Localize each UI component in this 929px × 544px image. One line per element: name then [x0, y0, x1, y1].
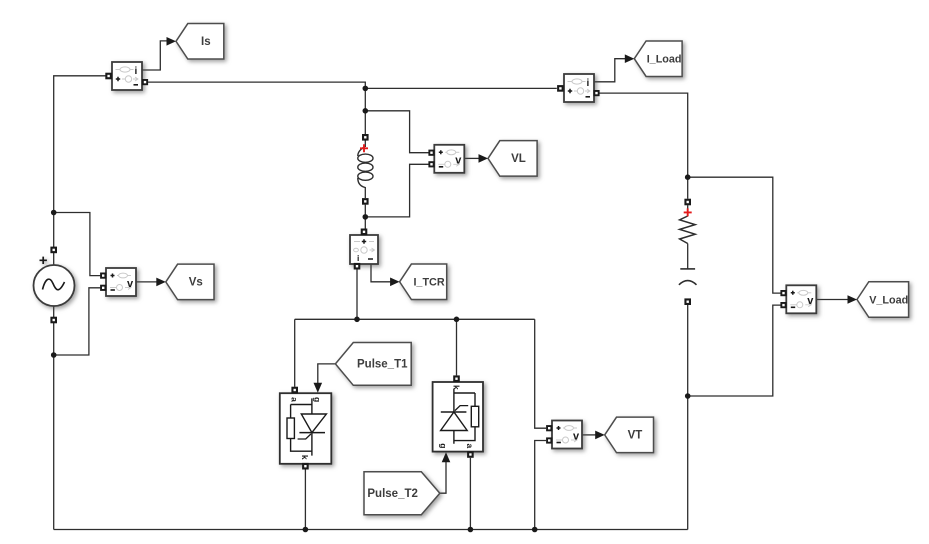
port T1 cathode terminal [302, 463, 309, 470]
svg-text:VT: VT [628, 430, 643, 442]
svg-text:a: a [465, 444, 475, 449]
wire bottom bus [54, 529, 688, 531]
arrowhead into VT tag [595, 431, 605, 440]
wire load top node to V_Load plus input [688, 177, 784, 293]
wire I_TCR meter minus output to thyristor bus [356, 269, 358, 319]
resistor R (load branch zigzag) [680, 216, 696, 244]
goto tag Vs [166, 264, 214, 300]
node junction bottom bus / T1 cathode [303, 527, 309, 533]
port Is meter minus output [142, 79, 148, 85]
svg-text:k: k [300, 455, 310, 460]
port T2 cathode terminal [453, 375, 460, 382]
port VT meter plus input [546, 425, 552, 431]
node junction inductor top / VL+ tap [363, 108, 369, 114]
wire thyristor top bus [295, 318, 535, 320]
wire Pulse_T2 tag to T2 gate [440, 461, 446, 493]
goto tag Is [176, 24, 224, 60]
label inductor polarity red plus [360, 144, 368, 152]
wire VL meter output to VL tag [465, 157, 480, 159]
wire ammeter1 minus-output top bus to inductor branch [148, 82, 365, 88]
port VL meter minus input [428, 161, 434, 167]
svg-text:I_TCR: I_TCR [413, 277, 444, 289]
wire node N1 to Vs plus input [54, 213, 101, 276]
port I_TCR meter minus output (bottom) [354, 263, 361, 270]
wire bottom bus to VT minus input [535, 441, 546, 530]
wire mid top bus junction to I_Load meter input [365, 87, 557, 89]
arrowhead into V_Load tag [848, 295, 858, 304]
wire node N2 to Vs minus input [54, 288, 101, 355]
svg-text:a: a [290, 397, 300, 402]
wire left rail source-top to port [53, 253, 55, 266]
svg-text:Is: Is [201, 36, 211, 48]
current measurement block Is meter [112, 62, 142, 90]
arrowhead into I_Load tag [625, 54, 635, 63]
wire inductor coil to bottom port [364, 187, 366, 198]
svg-text:Pulse_T2: Pulse_T2 [367, 488, 418, 500]
port I_TCR meter plus input (top) [361, 229, 368, 236]
port ac source minus terminal [50, 317, 57, 324]
wire Vs meter output to Vs tag [136, 281, 158, 283]
arrowhead into T1 gate port [314, 383, 323, 393]
port Is meter plus input [105, 73, 112, 80]
port inductor bottom terminal [362, 198, 369, 205]
wire inductor bottom port to junction [364, 205, 366, 229]
port T2 anode terminal [467, 451, 474, 458]
wire left rail top segment (node N1 to ammeter input corner) [54, 76, 106, 247]
wire I_Load meter i-output to I_Load tag [594, 59, 626, 82]
node N1 junction (source top / Vs+ tap) [51, 210, 57, 216]
arrowhead into I_TCR tag [390, 278, 400, 287]
wire thyristor bus to T1 anode port [294, 319, 296, 387]
svg-text:g: g [313, 397, 323, 402]
wire load branch port to resistor [687, 205, 689, 216]
wire load bottom node to V_Load minus input [688, 305, 784, 396]
svg-text:I_Load: I_Load [647, 54, 682, 66]
svg-text:v: v [455, 155, 462, 167]
arrowhead into Vs tag [156, 278, 166, 287]
svg-text:i: i [357, 253, 359, 263]
node junction bottom bus / T2 anode [468, 527, 474, 533]
wire I_Load meter minus output to load branch [599, 93, 688, 199]
svg-text:V_Load: V_Load [869, 294, 908, 306]
svg-text:Pulse_T1: Pulse_T1 [357, 359, 408, 371]
inductor L (TCR reactor coil) [358, 146, 373, 188]
goto tag I_Load [634, 41, 682, 76]
arrowhead into VL tag [479, 154, 489, 163]
port Vs meter minus input [100, 285, 106, 291]
arrowhead into Is tag [167, 37, 177, 46]
port inductor top terminal [362, 134, 369, 141]
node junction inductor bottom / VL- tap [363, 214, 369, 220]
svg-text:v: v [807, 295, 814, 307]
capacitor C (load branch plates) [679, 269, 697, 285]
wire load resistor to capacitor plate [687, 244, 689, 269]
wire T2 anode port to bottom bus [469, 458, 471, 530]
svg-text:g: g [439, 443, 449, 448]
svg-text:v: v [573, 430, 580, 442]
wire inductor branch upper [364, 88, 366, 134]
goto tag VL [488, 141, 537, 177]
port ac source plus terminal [50, 247, 57, 254]
goto tag VT [605, 417, 654, 453]
voltage measurement block Vs meter [106, 268, 136, 296]
wire thyristor bus to T2 cathode port [456, 319, 458, 375]
port load branch top terminal [684, 199, 691, 206]
wire load branch lower segment to bottom bus [687, 305, 689, 530]
port VT meter minus input [546, 437, 552, 443]
port V_Load meter minus input [780, 302, 786, 308]
wire I_TCR meter i-output to I_TCR tag [371, 264, 391, 282]
node junction load bottom / V_Load- tap [685, 393, 691, 399]
node junction thyristor bus / T2 cathode [454, 317, 460, 323]
wire inductor top port to coil [364, 141, 366, 148]
svg-text:v: v [127, 278, 134, 290]
voltage measurement block VL meter [434, 145, 464, 173]
port I_Load meter minus output [593, 90, 599, 96]
goto tag V_Load [857, 282, 909, 318]
port I_Load meter plus input [557, 85, 564, 92]
wire left rail source-bottom to port [53, 305, 55, 317]
current measurement block I_TCR meter [350, 235, 378, 264]
label load branch polarity red plus [684, 208, 692, 216]
port VL meter plus input [428, 150, 434, 156]
from tag Pulse_T1 [335, 343, 411, 386]
thyristor Q2 block (Thyristor2, flipped) [433, 382, 483, 452]
wire VT meter output to VT tag [582, 434, 596, 436]
wire ammeter1 i-output to Is tag [142, 41, 168, 70]
arrowhead into T2 gate port [442, 452, 451, 462]
goto tag I_TCR [400, 264, 447, 300]
ac voltage source Vs1 [34, 257, 75, 306]
svg-text:i: i [135, 66, 138, 77]
node junction thyristor bus / I_TCR return [354, 317, 360, 323]
port T1 anode terminal [291, 387, 298, 394]
wire T1 cathode port to bottom bus [304, 469, 306, 529]
from tag Pulse_T2 [364, 472, 440, 515]
voltage measurement block V_Load meter [786, 285, 816, 313]
node junction bottom bus / VT- tap [532, 527, 538, 533]
wire Pulse_T1 tag to T1 gate [318, 364, 336, 384]
voltage measurement block VT meter [552, 421, 582, 449]
node junction top bus at inductor branch [363, 86, 369, 92]
svg-text:Vs: Vs [189, 277, 203, 289]
node N2 junction (source bottom / Vs- tap) [51, 352, 57, 358]
wire thyristor bus right end to VT plus input [535, 319, 546, 428]
wire inductor top node to VL plus input [365, 111, 430, 153]
port Vs meter plus input [100, 273, 106, 279]
wire V_Load meter output to V_Load tag [817, 299, 848, 301]
port load branch bottom terminal [684, 298, 691, 305]
svg-text:i: i [587, 78, 590, 89]
wire inductor bottom node to VL minus input [365, 164, 430, 217]
port V_Load meter plus input [780, 290, 786, 296]
svg-text:k: k [451, 385, 461, 390]
node junction load top / V_Load+ tap [685, 174, 691, 180]
wire left rail bottom segment to bottom bus [53, 323, 55, 530]
current measurement block I_Load meter [564, 74, 594, 102]
svg-text:VL: VL [511, 153, 526, 165]
thyristor Q1 block (Thyristor1) [280, 393, 332, 464]
